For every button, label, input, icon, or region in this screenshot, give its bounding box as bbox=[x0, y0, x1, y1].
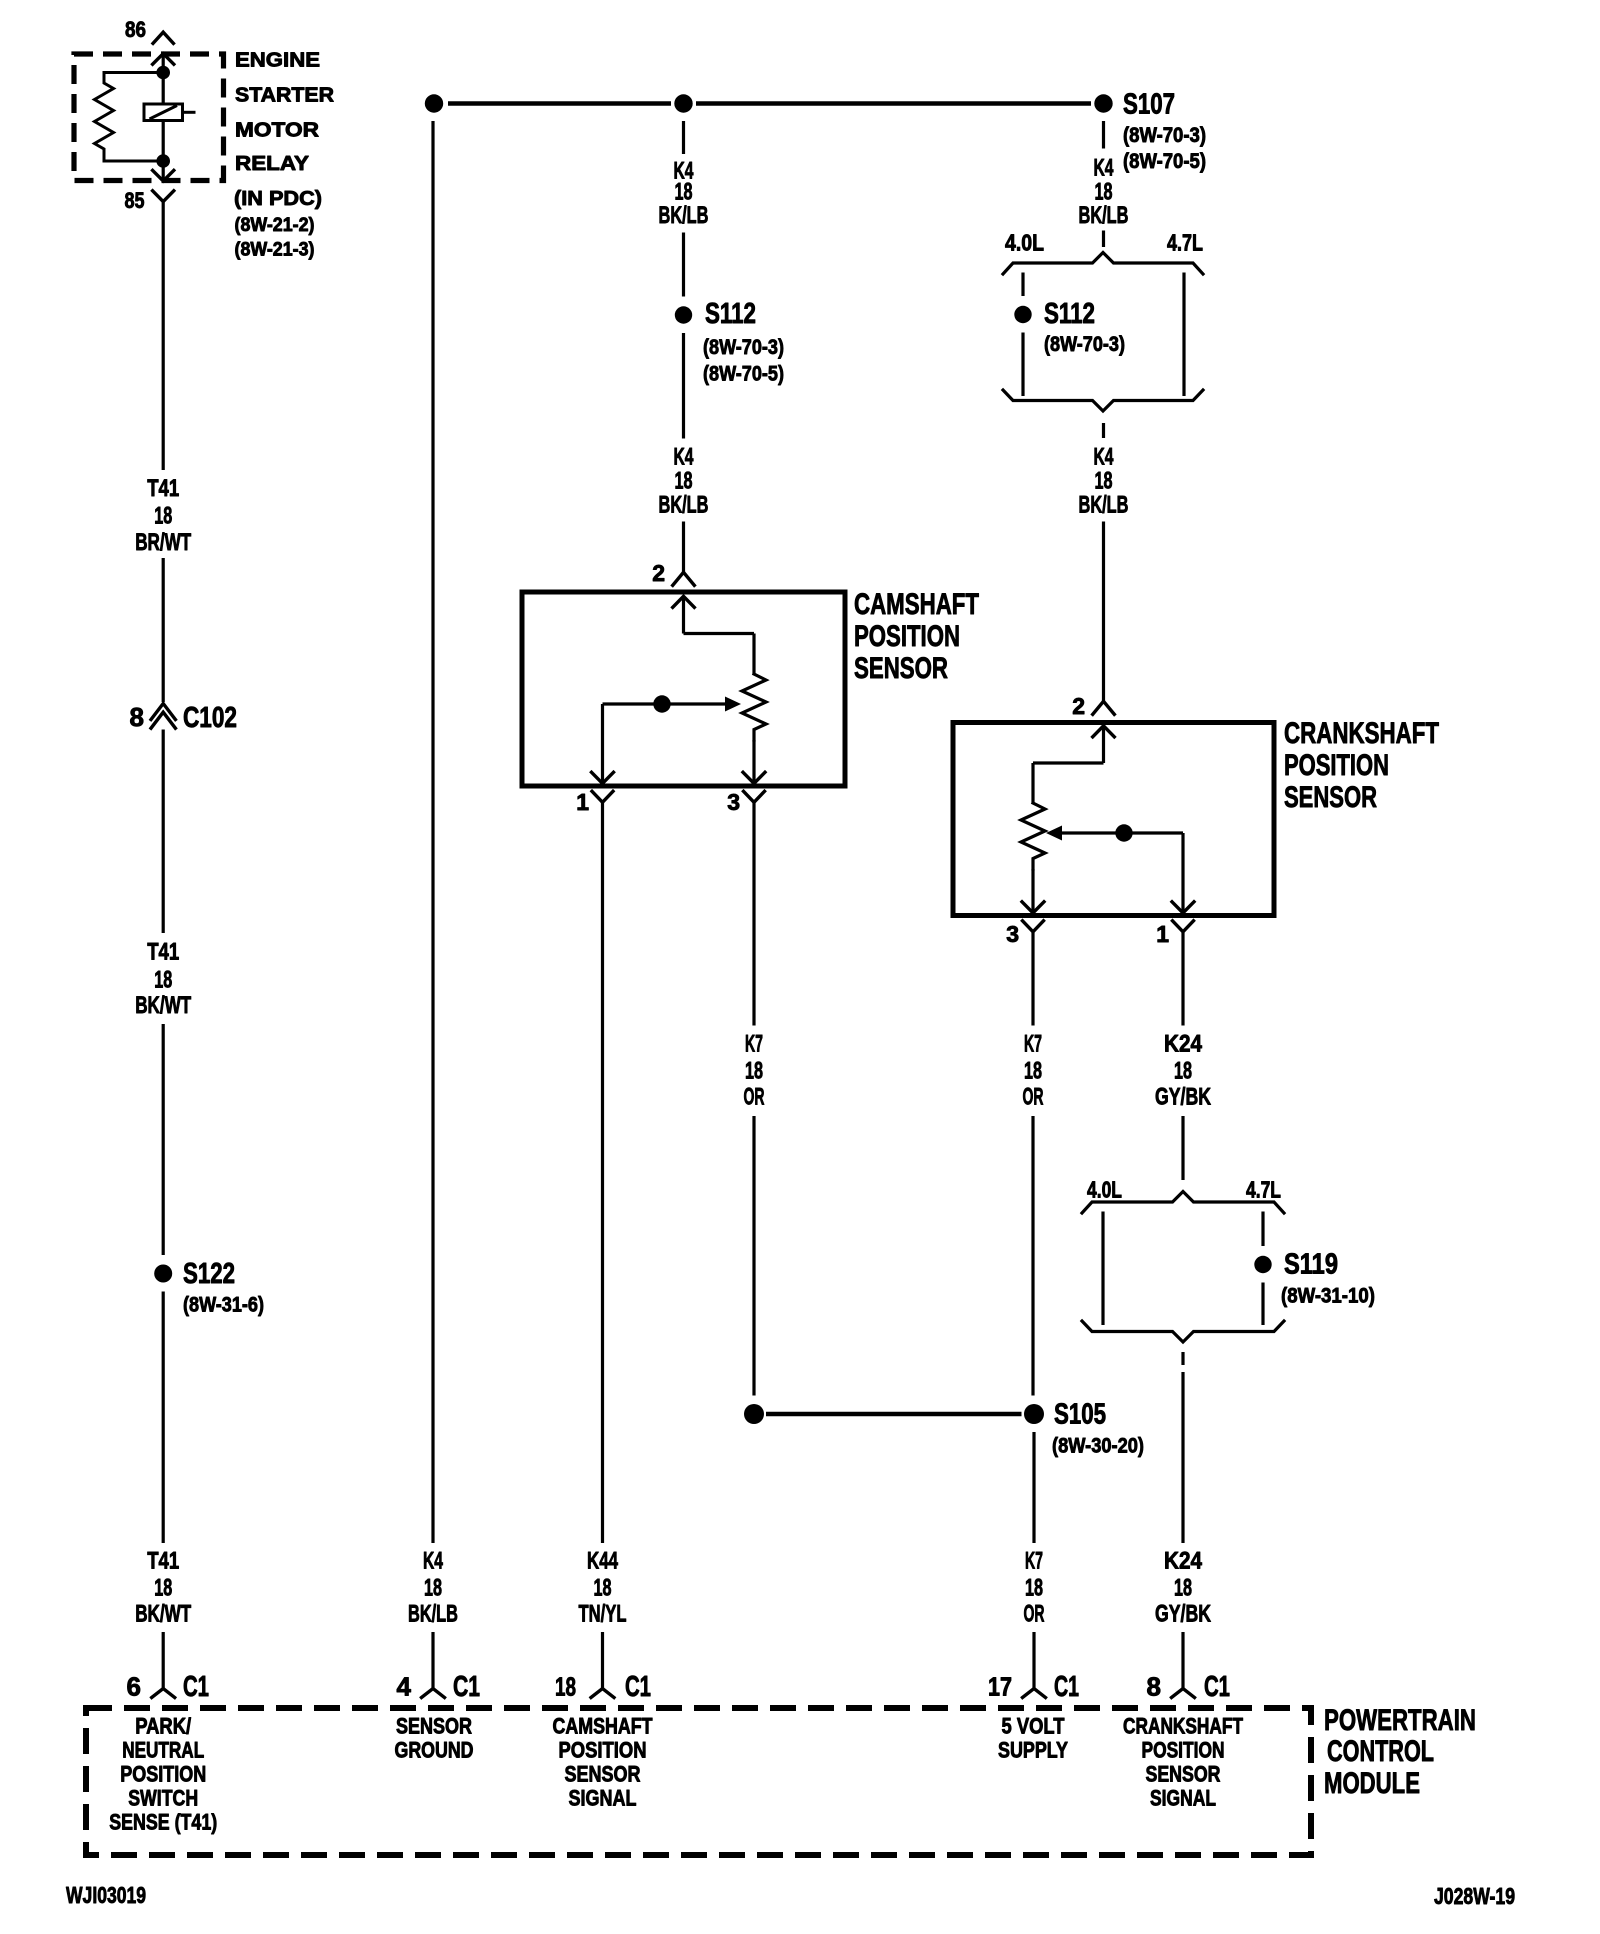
svg-text:BK/LB: BK/LB bbox=[659, 202, 709, 229]
svg-text:CRANKSHAFT: CRANKSHAFT bbox=[1123, 1714, 1243, 1739]
svg-text:POSITION: POSITION bbox=[854, 620, 960, 653]
svg-text:POSITION: POSITION bbox=[1284, 749, 1389, 782]
svg-text:3: 3 bbox=[727, 789, 740, 815]
svg-text:(8W-70-3): (8W-70-3) bbox=[1123, 124, 1206, 147]
svg-text:SENSOR: SENSOR bbox=[565, 1762, 641, 1787]
svg-text:SENSOR: SENSOR bbox=[854, 652, 948, 685]
svg-text:18: 18 bbox=[594, 1575, 612, 1602]
svg-text:K7: K7 bbox=[1025, 1548, 1043, 1575]
svg-text:BK/LB: BK/LB bbox=[659, 492, 709, 519]
svg-text:2: 2 bbox=[1072, 693, 1085, 719]
svg-text:SUPPLY: SUPPLY bbox=[998, 1738, 1068, 1763]
svg-text:4.0L: 4.0L bbox=[1005, 230, 1044, 256]
svg-text:K44: K44 bbox=[587, 1548, 618, 1575]
svg-text:(IN PDC): (IN PDC) bbox=[234, 188, 322, 210]
svg-text:K24: K24 bbox=[1164, 1031, 1203, 1058]
svg-text:18: 18 bbox=[154, 967, 172, 994]
svg-text:17: 17 bbox=[988, 1672, 1012, 1702]
svg-text:WJI03019: WJI03019 bbox=[66, 1882, 146, 1908]
svg-text:NEUTRAL: NEUTRAL bbox=[122, 1738, 204, 1763]
svg-text:(8W-31-6): (8W-31-6) bbox=[183, 1294, 264, 1317]
svg-text:4: 4 bbox=[397, 1672, 412, 1702]
svg-text:1: 1 bbox=[576, 789, 589, 815]
svg-text:18: 18 bbox=[1024, 1058, 1042, 1085]
svg-text:POSITION: POSITION bbox=[1142, 1738, 1225, 1763]
svg-text:(8W-21-2): (8W-21-2) bbox=[235, 215, 315, 236]
svg-text:RELAY: RELAY bbox=[235, 153, 310, 175]
svg-text:CRANKSHAFT: CRANKSHAFT bbox=[1284, 717, 1439, 750]
svg-text:SIGNAL: SIGNAL bbox=[1150, 1786, 1216, 1811]
svg-text:CAMSHAFT: CAMSHAFT bbox=[854, 588, 979, 621]
svg-text:(8W-70-3): (8W-70-3) bbox=[1044, 333, 1125, 356]
svg-text:SENSOR: SENSOR bbox=[1146, 1762, 1221, 1787]
svg-text:(8W-70-5): (8W-70-5) bbox=[1123, 150, 1206, 173]
svg-text:POSITION: POSITION bbox=[559, 1738, 647, 1763]
svg-text:S112: S112 bbox=[1044, 298, 1095, 330]
svg-text:MODULE: MODULE bbox=[1324, 1767, 1420, 1800]
svg-text:SENSOR: SENSOR bbox=[396, 1714, 472, 1739]
svg-text:PARK/: PARK/ bbox=[135, 1714, 191, 1739]
svg-text:C1: C1 bbox=[1204, 1671, 1230, 1703]
svg-text:BK/WT: BK/WT bbox=[135, 992, 191, 1019]
svg-text:BR/WT: BR/WT bbox=[135, 529, 191, 556]
svg-text:MOTOR: MOTOR bbox=[235, 120, 320, 142]
svg-text:(8W-70-3): (8W-70-3) bbox=[703, 336, 784, 359]
svg-text:C1: C1 bbox=[453, 1671, 480, 1703]
svg-text:6: 6 bbox=[127, 1672, 141, 1702]
svg-text:CONTROL: CONTROL bbox=[1327, 1735, 1434, 1768]
svg-text:BK/LB: BK/LB bbox=[408, 1601, 458, 1628]
svg-text:K4: K4 bbox=[1094, 155, 1114, 182]
svg-text:18: 18 bbox=[154, 503, 172, 530]
svg-text:K7: K7 bbox=[1024, 1031, 1042, 1058]
svg-text:POWERTRAIN: POWERTRAIN bbox=[1324, 1704, 1476, 1737]
svg-text:J028W-19: J028W-19 bbox=[1434, 1883, 1515, 1909]
svg-text:K4: K4 bbox=[1094, 444, 1114, 471]
svg-text:BK/LB: BK/LB bbox=[1079, 492, 1129, 519]
svg-text:86: 86 bbox=[125, 17, 146, 42]
svg-text:TN/YL: TN/YL bbox=[579, 1601, 627, 1628]
svg-text:K4: K4 bbox=[423, 1548, 443, 1575]
svg-text:18: 18 bbox=[1174, 1575, 1192, 1602]
svg-text:85: 85 bbox=[125, 188, 145, 213]
svg-text:18: 18 bbox=[1025, 1575, 1043, 1602]
svg-text:5 VOLT: 5 VOLT bbox=[1002, 1714, 1065, 1739]
svg-text:SWITCH: SWITCH bbox=[128, 1786, 198, 1811]
svg-text:1: 1 bbox=[1156, 921, 1169, 947]
svg-text:18: 18 bbox=[745, 1058, 763, 1085]
svg-text:GROUND: GROUND bbox=[395, 1738, 474, 1763]
svg-text:S105: S105 bbox=[1054, 1399, 1106, 1431]
svg-text:2: 2 bbox=[652, 560, 665, 586]
svg-text:18: 18 bbox=[154, 1575, 172, 1602]
svg-text:STARTER: STARTER bbox=[235, 85, 335, 107]
svg-text:K24: K24 bbox=[1164, 1548, 1203, 1575]
svg-text:OR: OR bbox=[1024, 1601, 1045, 1628]
svg-text:C102: C102 bbox=[183, 702, 237, 734]
svg-text:POSITION: POSITION bbox=[120, 1762, 206, 1787]
svg-text:C1: C1 bbox=[625, 1671, 651, 1703]
svg-text:SIGNAL: SIGNAL bbox=[569, 1786, 637, 1811]
svg-text:T41: T41 bbox=[147, 475, 179, 502]
svg-text:S122: S122 bbox=[183, 1258, 235, 1290]
svg-text:18: 18 bbox=[555, 1672, 576, 1702]
svg-text:4.7L: 4.7L bbox=[1167, 230, 1203, 256]
svg-text:S119: S119 bbox=[1284, 1249, 1338, 1281]
svg-text:18: 18 bbox=[1095, 468, 1113, 495]
svg-text:K4: K4 bbox=[674, 444, 694, 471]
svg-text:8: 8 bbox=[1147, 1672, 1161, 1702]
svg-text:18: 18 bbox=[424, 1575, 442, 1602]
svg-text:3: 3 bbox=[1006, 921, 1019, 947]
svg-text:GY/BK: GY/BK bbox=[1155, 1084, 1211, 1111]
svg-text:18: 18 bbox=[1174, 1058, 1192, 1085]
svg-text:OR: OR bbox=[744, 1084, 765, 1111]
svg-text:(8W-21-3): (8W-21-3) bbox=[235, 240, 315, 261]
svg-text:BK/WT: BK/WT bbox=[135, 1601, 191, 1628]
svg-text:S107: S107 bbox=[1123, 89, 1175, 121]
svg-text:8: 8 bbox=[130, 702, 144, 732]
svg-text:BK/LB: BK/LB bbox=[1079, 202, 1129, 229]
svg-text:(8W-70-5): (8W-70-5) bbox=[703, 363, 784, 386]
svg-text:18: 18 bbox=[675, 468, 693, 495]
svg-text:T41: T41 bbox=[147, 1548, 179, 1575]
svg-text:C1: C1 bbox=[183, 1671, 209, 1703]
svg-text:OR: OR bbox=[1023, 1084, 1044, 1111]
svg-text:4.0L: 4.0L bbox=[1087, 1177, 1122, 1203]
svg-text:T41: T41 bbox=[147, 939, 179, 966]
svg-text:K7: K7 bbox=[745, 1031, 763, 1058]
svg-text:(8W-30-20): (8W-30-20) bbox=[1052, 1435, 1144, 1458]
svg-text:SENSE (T41): SENSE (T41) bbox=[109, 1810, 217, 1835]
svg-text:(8W-31-10): (8W-31-10) bbox=[1281, 1285, 1375, 1308]
svg-text:ENGINE: ENGINE bbox=[235, 50, 320, 72]
svg-text:S112: S112 bbox=[705, 298, 756, 330]
svg-text:C1: C1 bbox=[1054, 1671, 1079, 1703]
svg-text:4.7L: 4.7L bbox=[1246, 1177, 1281, 1203]
svg-text:SENSOR: SENSOR bbox=[1284, 781, 1377, 814]
svg-text:GY/BK: GY/BK bbox=[1155, 1601, 1211, 1628]
svg-text:CAMSHAFT: CAMSHAFT bbox=[553, 1714, 653, 1739]
